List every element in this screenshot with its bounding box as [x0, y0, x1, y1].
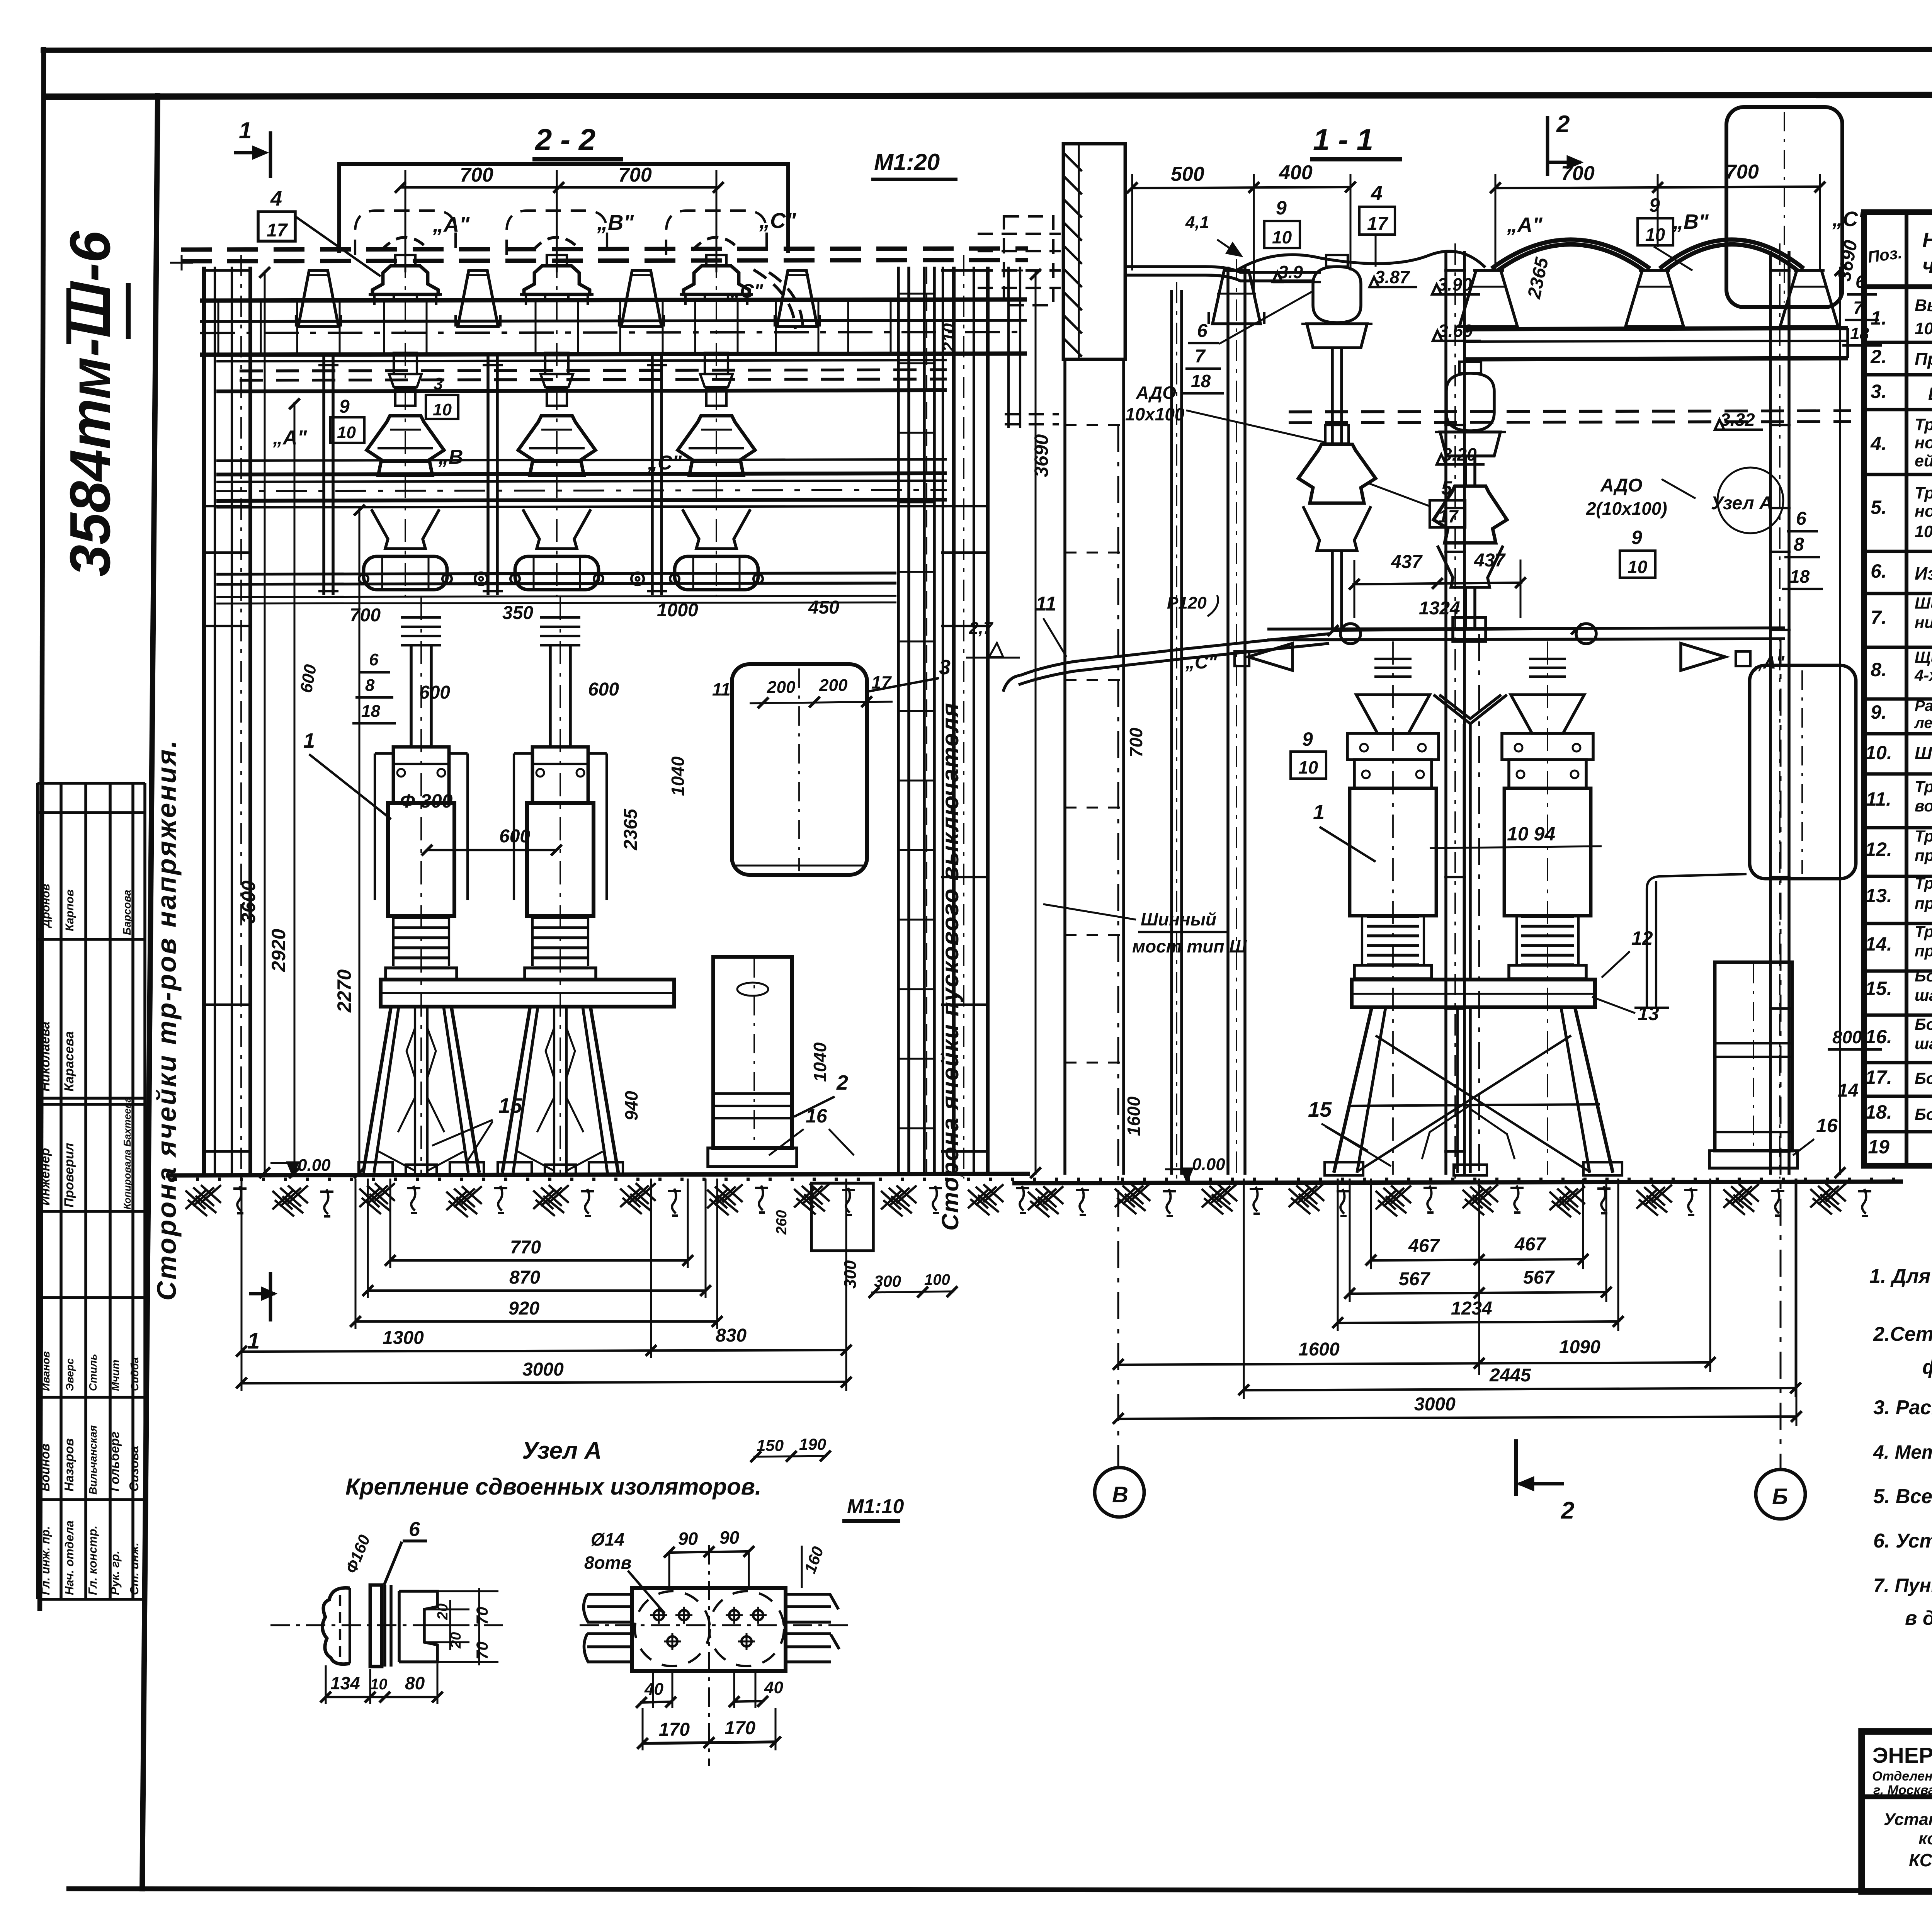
axis circle B	[1756, 1469, 1805, 1519]
wall continues to ground	[1063, 359, 1066, 1175]
dim 700-700 top	[400, 186, 718, 189]
svg-text:Ф 300: Ф 300	[400, 790, 453, 812]
svg-text:1600: 1600	[1298, 1339, 1340, 1360]
svg-text:Крепление сдвоенных изолято: Крепление сдвоенных изоляторов.	[345, 1474, 762, 1500]
svg-text:210: 210	[939, 323, 958, 352]
upper insulators row	[355, 211, 456, 255]
phase axis dashed verticals	[405, 211, 406, 597]
svg-text:„С": „С"	[647, 452, 682, 474]
svg-text:Эверс: Эверс	[64, 1358, 76, 1391]
svg-text:Войнов: Войнов	[38, 1444, 52, 1492]
svg-text:2.Сетчатое ограждение и металл: 2.Сетчатое ограждение и металлические ли…	[1873, 1323, 1932, 1345]
svg-text:350: 350	[502, 603, 533, 623]
svg-text:Р120: Р120	[1167, 594, 1207, 612]
svg-text:10: 10	[433, 400, 452, 419]
svg-text:„В": „В"	[1673, 210, 1709, 233]
svg-text:2 - 2: 2 - 2	[534, 122, 595, 156]
title block grid	[1862, 1731, 1932, 1891]
clamp row 1-1	[1267, 628, 1785, 629]
right beam with cones	[1464, 328, 1848, 329]
svg-text:6. Установка трубы (поз.11): 6. Установка трубы (поз.11) осуществляет…	[1873, 1530, 1932, 1552]
svg-text:11: 11	[712, 679, 731, 699]
svg-text:0.00: 0.00	[298, 1156, 331, 1175]
svg-text:Труда стальная водогазопро-: Труда стальная водогазопро-	[1915, 777, 1932, 796]
svg-text:40: 40	[764, 1678, 783, 1697]
svg-text:3.87: 3.87	[1375, 267, 1410, 287]
svg-text:190: 190	[799, 1435, 826, 1453]
svg-text:4.: 4.	[1870, 433, 1887, 454]
V hanger center	[1434, 695, 1507, 724]
svg-text:9: 9	[1631, 527, 1642, 548]
svg-text:„С": „С"	[730, 280, 764, 302]
svg-text:6: 6	[369, 650, 379, 669]
svg-text:8: 8	[1794, 534, 1804, 555]
svg-text:Копировала Бахтеева: Копировала Бахтеева	[121, 1097, 133, 1209]
small cone insulators row	[298, 270, 338, 327]
svg-text:Болт с гайкой и шайбой.: Болт с гайкой и шайбой.	[1915, 1069, 1932, 1087]
svg-text:14: 14	[1838, 1080, 1858, 1101]
trestle supports	[363, 1007, 391, 1173]
wall hatch marks	[1063, 153, 1082, 171]
svg-text:260: 260	[774, 1210, 790, 1235]
svg-text:Стиль: Стиль	[87, 1354, 99, 1391]
svg-text:3690: 3690	[1031, 434, 1052, 477]
svg-text:10х100: 10х100	[1125, 404, 1185, 424]
svg-text:водная: водная	[1915, 797, 1932, 815]
svg-text:4. Металлоконструкции ячейки: 4. Металлоконструкции ячейки выключателя…	[1873, 1441, 1932, 1463]
svg-text:6: 6	[1796, 509, 1806, 529]
svg-text:11: 11	[1036, 593, 1056, 615]
svg-text:Шкаф управления: Шкаф управления	[1928, 384, 1932, 404]
svg-text:ческая характеристика: ческая характеристика	[1922, 254, 1932, 277]
left detail dims	[326, 1696, 437, 1698]
left tower columns	[202, 267, 206, 1175]
svg-text:300: 300	[841, 1260, 860, 1289]
beam band	[200, 299, 1027, 301]
svg-text:800: 800	[1832, 1027, 1862, 1047]
bus stubs right	[786, 1593, 831, 1596]
svg-text:70: 70	[473, 1607, 491, 1625]
svg-text:В: В	[1112, 1482, 1128, 1507]
svg-text:200: 200	[819, 676, 848, 695]
svg-text:1000: 1000	[657, 600, 698, 621]
svg-text:940: 940	[621, 1091, 641, 1121]
platform	[381, 980, 674, 1007]
svg-text:2(10х100): 2(10х100)	[1586, 498, 1667, 519]
1-1 frame columns	[1170, 290, 1173, 1175]
svg-text:700: 700	[618, 164, 652, 186]
svg-text:Инженер: Инженер	[38, 1148, 53, 1206]
right side pipe run	[1647, 881, 1656, 1009]
bolt holes	[654, 1610, 664, 1620]
svg-text:Вильчанская: Вильчанская	[87, 1425, 99, 1495]
svg-text:17: 17	[267, 220, 288, 241]
right cabinet mid	[1750, 665, 1856, 879]
svg-text:фасаде ячейки выключателя усло: фасаде ячейки выключателя условно не пок…	[1922, 1356, 1932, 1378]
svg-text:3.: 3.	[1871, 381, 1887, 402]
svg-text:567: 567	[1523, 1267, 1555, 1288]
svg-text:830: 830	[716, 1325, 747, 1346]
svg-text:870: 870	[509, 1267, 540, 1288]
svg-text:Трансформатор тока проход-: Трансформатор тока проход-	[1915, 415, 1932, 434]
bus from wall to TT	[1125, 267, 1321, 272]
svg-text:9: 9	[1276, 197, 1287, 219]
svg-text:проводная.: проводная.	[1915, 942, 1932, 960]
svg-text:15: 15	[1308, 1097, 1332, 1121]
svg-text:12: 12	[1631, 927, 1653, 949]
svg-text:90: 90	[678, 1529, 698, 1549]
svg-text:ЭНЕРГОСЕТЬПРОЕКТ: ЭНЕРГОСЕТЬПРОЕКТ	[1872, 1743, 1932, 1768]
section marker 2 bottom	[1514, 1439, 1518, 1496]
svg-text:17.: 17.	[1865, 1066, 1892, 1088]
svg-text:9.: 9.	[1871, 701, 1887, 723]
svg-text:Узел А: Узел А	[522, 1437, 602, 1464]
svg-text:Изолятор опорный, 10кВ: Изолятор опорный, 10кВ	[1915, 563, 1932, 583]
svg-text:Выключатель маломасляный: Выключатель маломасляный	[1915, 296, 1932, 315]
extension verticals 1-1 chains	[1337, 1179, 1339, 1331]
svg-text:10: 10	[370, 1676, 388, 1693]
svg-text:г. Москва: г. Москва	[1873, 1783, 1932, 1798]
dim chains below 2-2	[390, 1259, 688, 1262]
svg-text:1300: 1300	[383, 1328, 424, 1348]
svg-text:Нач. отдела: Нач. отдела	[63, 1520, 76, 1595]
dim chains below 1-1	[1371, 1259, 1583, 1260]
svg-text:„А": „А"	[272, 427, 308, 449]
svg-text:„С": „С"	[1832, 207, 1868, 231]
svg-text:шайбой.: шайбой.	[1915, 1034, 1932, 1053]
svg-text:„А": „А"	[432, 212, 470, 236]
dim 700/700 right	[1495, 187, 1820, 188]
svg-text:Установка синхронных: Установка синхронных	[1884, 1810, 1932, 1829]
lower inverted bells	[371, 509, 439, 549]
trestle 1-1	[1334, 1007, 1372, 1173]
dim 500/400	[1132, 187, 1350, 188]
svg-text:М1:20: М1:20	[874, 149, 940, 175]
svg-text:„С": „С"	[1185, 652, 1218, 673]
dots along ground	[174, 1178, 1895, 1181]
svg-text:16: 16	[806, 1105, 828, 1127]
extension verticals 2-2 chains	[241, 1179, 243, 1391]
TT sphere stack center	[1313, 267, 1361, 323]
svg-text:мост тип Ш: мост тип Ш	[1132, 936, 1247, 956]
dims 90 90	[669, 1551, 749, 1553]
rail band B	[216, 459, 947, 461]
svg-text:1090: 1090	[1559, 1337, 1600, 1357]
vertical dims 3600 2920 2270	[264, 270, 266, 1175]
svg-text:16: 16	[1816, 1115, 1838, 1136]
svg-text:3.32: 3.32	[1720, 410, 1755, 430]
svg-text:10: 10	[1645, 224, 1665, 245]
svg-text:3000: 3000	[522, 1359, 564, 1380]
left cone insulator	[1213, 270, 1260, 324]
svg-text:10: 10	[1628, 557, 1648, 577]
svg-text:600: 600	[588, 679, 619, 700]
label 3 leader	[867, 678, 939, 692]
svg-text:Болт с шайбой.: Болт с шайбой.	[1915, 1105, 1932, 1123]
upper dashed busbars	[181, 248, 1028, 250]
svg-text:7: 7	[1853, 298, 1864, 318]
svg-text:1. Для варианта в кирпиче при: 1. Для варианта в кирпиче привязки к стр…	[1869, 1265, 1932, 1287]
svg-text:Мчит: Мчит	[109, 1360, 121, 1391]
svg-text:Сторона ячейки тр-ров напряжен: Сторона ячейки тр-ров напряжения.	[151, 739, 182, 1301]
svg-text:6: 6	[1855, 272, 1866, 292]
svg-text:19: 19	[1868, 1136, 1889, 1158]
svg-text:АДО: АДО	[1600, 475, 1642, 496]
dashed bus stub from 2-2	[1004, 216, 1053, 305]
TT support posts	[322, 355, 325, 595]
right tower columns	[942, 267, 944, 1175]
svg-text:2445: 2445	[1489, 1365, 1531, 1386]
svg-text:700: 700	[460, 164, 493, 186]
svg-text:170: 170	[724, 1718, 755, 1738]
svg-text:2920: 2920	[268, 929, 289, 972]
svg-text:Рук. гр.: Рук. гр.	[108, 1551, 122, 1595]
svg-text:18: 18	[361, 702, 380, 721]
svg-text:ния 2-х алюминиевых шин 10х100: ния 2-х алюминиевых шин 10х100	[1915, 613, 1932, 631]
svg-text:920: 920	[509, 1298, 539, 1319]
svg-text:10 94: 10 94	[1507, 823, 1555, 845]
svg-text:1040: 1040	[810, 1042, 830, 1082]
svg-text:„В": „В"	[597, 210, 634, 235]
left detail right-side dims 20 20 70 70	[424, 1609, 469, 1611]
svg-text:2: 2	[1561, 1497, 1574, 1524]
drive cylinder right	[1715, 962, 1792, 1151]
svg-text:18.: 18.	[1865, 1101, 1892, 1123]
right cabinet ShS-2	[732, 664, 867, 875]
svg-text:Назаров: Назаров	[62, 1438, 76, 1492]
svg-text:2,7: 2,7	[969, 619, 994, 638]
ground line 2-2	[166, 1174, 1030, 1175]
svg-text:10кВ Iном=5000А Iоткл=105кА: 10кВ Iном=5000А Iоткл=105кА	[1915, 319, 1932, 338]
svg-text:Гл. констр.: Гл. констр.	[86, 1526, 99, 1595]
right dashed axis extras	[926, 267, 927, 1175]
svg-text:шайбой.: шайбой.	[1915, 986, 1932, 1004]
svg-text:770: 770	[510, 1237, 541, 1258]
axis circle V	[1095, 1468, 1144, 1517]
svg-text:Болт с двумя гайками и: Болт с двумя гайками и	[1915, 1015, 1932, 1033]
svg-text:Барсова: Барсова	[121, 890, 133, 935]
svg-text:467: 467	[1514, 1234, 1546, 1255]
svg-text:1 - 1: 1 - 1	[1313, 122, 1373, 156]
svg-text:1.: 1.	[1871, 307, 1887, 329]
svg-text:Щинодержатель для крепления: Щинодержатель для крепления	[1915, 648, 1932, 666]
svg-text:1: 1	[239, 117, 252, 143]
platform 1-1	[1352, 980, 1595, 1007]
svg-text:Труба стальная водогазо-: Труба стальная водогазо-	[1915, 874, 1932, 892]
signature table	[36, 783, 39, 1599]
svg-text:3: 3	[939, 656, 951, 679]
mid dashed bus 1-1	[1289, 411, 1851, 412]
svg-text:проводная: проводная	[1915, 846, 1932, 864]
svg-text:Гл. инж. пр.: Гл. инж. пр.	[39, 1526, 52, 1595]
svg-text:Узел А: Узел А	[1711, 493, 1773, 514]
svg-text:3600: 3600	[238, 881, 259, 923]
svg-text:„А": „А"	[1507, 213, 1543, 236]
svg-text:18: 18	[1191, 371, 1211, 391]
svg-text:2.: 2.	[1870, 346, 1887, 367]
svg-text:7. Пунктиром показано оборуд: 7. Пунктиром показано оборудование и оши…	[1873, 1575, 1932, 1596]
svg-text:12.: 12.	[1865, 838, 1892, 860]
svg-text:„В: „В	[438, 446, 463, 468]
svg-text:Гольберг: Гольберг	[107, 1432, 122, 1492]
svg-text:18: 18	[1790, 566, 1810, 587]
svg-text:1600: 1600	[1124, 1096, 1144, 1136]
svg-text:3000: 3000	[1414, 1394, 1456, 1415]
svg-text:Дронов: Дронов	[39, 884, 52, 929]
svg-text:КСВБ-50-11 У1: КСВБ-50-11 У1	[1909, 1850, 1932, 1870]
svg-text:17: 17	[1367, 214, 1389, 234]
svg-text:проводная: проводная	[1915, 894, 1932, 912]
dims 170 170	[641, 1742, 777, 1743]
svg-text:437: 437	[1474, 550, 1506, 571]
svg-text:14.: 14.	[1865, 933, 1892, 955]
svg-text:3. Распорки шинные (поз.9) ста: 3. Распорки шинные (поз.9) ставить через…	[1873, 1396, 1932, 1419]
svg-text:70: 70	[473, 1641, 491, 1660]
svg-text:9: 9	[339, 396, 350, 417]
clamp row with bus	[216, 573, 896, 574]
svg-text:16.: 16.	[1865, 1026, 1892, 1048]
svg-text:ной шинный с литой изоляцией: ной шинный с литой изоляцией	[1915, 502, 1932, 520]
svg-text:700: 700	[350, 605, 381, 626]
dims 40 40	[640, 1702, 672, 1702]
svg-text:Труба стальная водогазо-: Труба стальная водогазо-	[1915, 922, 1932, 940]
svg-text:5. Все соединения алюминиевых: 5. Все соединения алюминиевых шин выполн…	[1873, 1485, 1932, 1508]
svg-text:437: 437	[1391, 552, 1423, 572]
svg-text:1040: 1040	[668, 756, 688, 796]
svg-text:3: 3	[434, 374, 443, 393]
svg-text:Трансформатор тока проход-: Трансформатор тока проход-	[1915, 484, 1932, 502]
svg-text:20: 20	[435, 1604, 451, 1620]
breaker poles lower	[420, 597, 422, 1175]
svg-text:134: 134	[330, 1673, 360, 1693]
svg-text:Отделение Дальних Передач: Отделение Дальних Передач	[1872, 1769, 1932, 1784]
svg-text:3584тм-Ш-6: 3584тм-Ш-6	[58, 230, 122, 577]
svg-text:567: 567	[1399, 1269, 1430, 1289]
svg-text:ной, шинный с литой изоляци-: ной, шинный с литой изоляци-	[1915, 434, 1932, 452]
svg-text:Б: Б	[1772, 1484, 1788, 1509]
svg-text:4-х алюминиевых шин 10х100: 4-х алюминиевых шин 10х100	[1914, 666, 1932, 684]
svg-text:Проверил: Проверил	[62, 1143, 77, 1207]
second TT sphere stack mid column	[1446, 373, 1494, 431]
svg-text:600: 600	[499, 826, 530, 847]
svg-text:1: 1	[303, 729, 315, 752]
bus loops over cones	[1492, 240, 1650, 269]
svg-text:8отв: 8отв	[584, 1553, 631, 1573]
svg-text:4,1: 4,1	[1185, 213, 1209, 232]
svg-text:8.: 8.	[1871, 659, 1887, 680]
svg-text:450: 450	[808, 597, 839, 618]
svg-text:Ø14: Ø14	[591, 1529, 624, 1549]
svg-text:7.: 7.	[1871, 607, 1887, 628]
svg-text:М1:10: М1:10	[847, 1495, 904, 1518]
mid insulator stacks	[394, 353, 417, 374]
svg-text:Наименование и техни-: Наименование и техни-	[1922, 229, 1932, 252]
svg-text:1234: 1234	[1451, 1298, 1492, 1319]
mid bell on TT column	[1298, 444, 1376, 503]
svg-text:6: 6	[409, 1518, 420, 1541]
svg-text:Николаева: Николаева	[38, 1022, 53, 1092]
svg-text:Карасева: Карасева	[62, 1031, 77, 1092]
svg-text:Болт анкерный, с гайкой и: Болт анкерный, с гайкой и	[1915, 967, 1932, 985]
svg-text:18: 18	[1850, 324, 1869, 343]
mid dashed busbars	[240, 370, 947, 371]
breaker poles 1-1	[1392, 641, 1394, 1175]
svg-text:2365: 2365	[621, 808, 641, 850]
svg-text:1: 1	[247, 1328, 260, 1354]
svg-text:170: 170	[659, 1719, 690, 1740]
svg-text:700: 700	[1126, 728, 1146, 757]
svg-text:4: 4	[270, 187, 282, 210]
ground line 1-1	[1012, 1182, 1903, 1183]
svg-text:10: 10	[1298, 757, 1318, 777]
svg-text:10: 10	[337, 423, 356, 442]
svg-text:Сторона ячейки пускового выклю: Сторона ячейки пускового выключателя	[937, 702, 963, 1231]
svg-text:90: 90	[719, 1527, 740, 1548]
svg-text:4: 4	[1371, 182, 1383, 205]
svg-text:400: 400	[1279, 162, 1313, 184]
dashed insulator circles	[635, 1591, 710, 1666]
svg-text:Сидба: Сидба	[129, 1357, 141, 1391]
bus stubs left	[587, 1593, 632, 1596]
svg-text:7: 7	[1195, 346, 1206, 367]
svg-text:„С": „С"	[759, 208, 796, 233]
svg-text:1: 1	[1313, 801, 1325, 824]
uzel A left detail: channel + insulator stub	[322, 1588, 350, 1664]
svg-text:10.: 10.	[1865, 742, 1892, 764]
svg-text:Шина алюминиевая: Шина алюминиевая	[1915, 743, 1932, 763]
svg-text:11.: 11.	[1866, 788, 1891, 810]
bus bridge outline box	[339, 164, 788, 253]
svg-text:10: 10	[1272, 227, 1292, 247]
svg-text:13.: 13.	[1865, 885, 1892, 906]
svg-text:6.: 6.	[1871, 560, 1887, 582]
spec table grid	[1864, 212, 1932, 1166]
section marker 1 bottom	[269, 1272, 272, 1321]
svg-text:700: 700	[1561, 162, 1595, 185]
svg-text:компенсаторов: компенсаторов	[1918, 1829, 1932, 1848]
svg-text:9: 9	[1302, 728, 1313, 750]
svg-text:ления алюминиевых шин 10х100: ления алюминиевых шин 10х100	[1914, 714, 1932, 731]
svg-text:6: 6	[1197, 321, 1207, 341]
far right partial column	[1007, 267, 1010, 428]
svg-text:9: 9	[1649, 194, 1660, 216]
svg-text:2270: 2270	[333, 969, 355, 1013]
svg-text:ей 10кВ, 3000/5А.: ей 10кВ, 3000/5А.	[1915, 452, 1932, 470]
top right cabinet	[1726, 107, 1842, 307]
svg-text:2: 2	[836, 1071, 848, 1094]
svg-text:15.: 15.	[1865, 978, 1892, 999]
left margin axis	[181, 255, 183, 270]
svg-text:2: 2	[1556, 111, 1570, 138]
wall column top left	[1063, 144, 1125, 359]
svg-text:200: 200	[767, 678, 796, 697]
svg-text:0.00: 0.00	[1192, 1155, 1225, 1174]
pit right of 2-2	[811, 1183, 873, 1251]
right lattice column	[897, 267, 900, 1175]
svg-text:Распорка шинная для креп-: Распорка шинная для креп-	[1915, 697, 1932, 714]
svg-text:700: 700	[1725, 161, 1759, 183]
svg-text:500: 500	[1171, 163, 1204, 185]
svg-text:Шинный: Шинный	[1141, 909, 1216, 929]
center lines	[580, 1624, 854, 1626]
svg-text:Иванов: Иванов	[40, 1351, 52, 1391]
svg-text:1324: 1324	[1419, 598, 1460, 619]
svg-text:467: 467	[1408, 1236, 1440, 1256]
svg-text:Труба стальная водогазо-: Труба стальная водогазо-	[1915, 827, 1932, 845]
uzel A right detail: plate plan	[632, 1588, 786, 1671]
svg-text:Ст. инж.: Ст. инж.	[128, 1543, 141, 1595]
svg-text:10кВ 3000/5А.: 10кВ 3000/5А.	[1915, 522, 1932, 541]
